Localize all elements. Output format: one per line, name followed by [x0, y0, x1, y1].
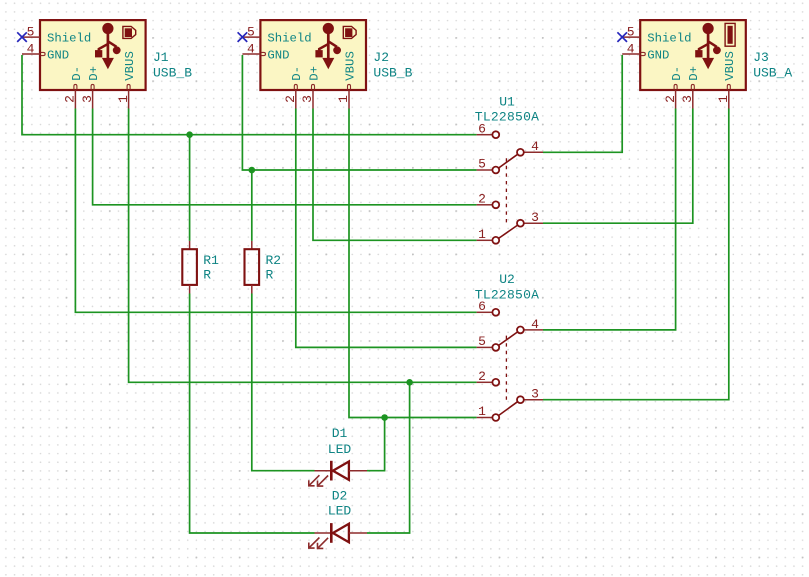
- U1 pin 1: [477, 239, 493, 241]
- R2 bottom pin: [251, 285, 253, 294]
- svg-text:3: 3: [531, 387, 539, 402]
- svg-text:3: 3: [300, 95, 315, 103]
- svg-text:4: 4: [627, 42, 635, 57]
- D1 anode triangle: [333, 462, 349, 480]
- J2 body box: [260, 20, 366, 90]
- wire R1 top tap: [189, 135, 191, 241]
- J2 pin 2 alternate-function hook: [294, 84, 297, 89]
- J1 pin 5 Shield: [22, 36, 40, 38]
- svg-text:D+: D+: [307, 66, 321, 81]
- wire D1 anode riser: [367, 418, 385, 471]
- D1 emission arrow 1: [309, 475, 320, 486]
- svg-text:1: 1: [336, 95, 351, 103]
- svg-text:VBUS: VBUS: [723, 51, 737, 81]
- LED D2: [309, 488, 367, 548]
- J3 pin 4 alternate-function hook: [641, 52, 645, 55]
- svg-text:J3: J3: [753, 50, 769, 65]
- svg-text:2: 2: [663, 95, 678, 103]
- svg-text:VBUS: VBUS: [343, 51, 357, 81]
- D2 emission arrow 2: [318, 538, 329, 549]
- J1 pin 2 alternate-function hook: [74, 84, 77, 89]
- J1 pin 2 (D-): [74, 90, 76, 108]
- U2 gang dashed link: [505, 336, 507, 404]
- svg-text:GND: GND: [47, 48, 69, 62]
- wire J3.D- to U2 pin4: [543, 109, 676, 330]
- J3 pin 5 Shield: [622, 36, 640, 38]
- D1 emission arrow 2: [318, 476, 329, 487]
- analog switch U2 TL22850A: [475, 272, 543, 421]
- J2 pin 1 (VBUS): [348, 90, 350, 108]
- J3 pin 2 (D-): [675, 90, 677, 108]
- svg-text:J2: J2: [373, 50, 389, 65]
- svg-text:Shield: Shield: [647, 32, 691, 46]
- junction R1 top / net GNDA: [186, 131, 193, 138]
- svg-text:3: 3: [80, 95, 95, 103]
- svg-text:USB_B: USB_B: [153, 65, 192, 80]
- D1 cathode bar: [330, 461, 333, 481]
- svg-text:J1: J1: [153, 50, 169, 65]
- wire J3.VBUS to U2 pin3: [543, 109, 729, 400]
- R1 bottom pin: [189, 285, 191, 294]
- svg-text:5: 5: [627, 25, 635, 40]
- svg-text:USB_A: USB_A: [753, 65, 792, 80]
- J1 pin 1 (VBUS): [128, 90, 130, 108]
- no-connect X J3 pin 5: [617, 32, 627, 42]
- U2 pin 5: [477, 346, 493, 348]
- J1 body box: [40, 20, 146, 90]
- J3 body box: [640, 20, 746, 90]
- svg-text:2: 2: [478, 369, 486, 384]
- svg-text:LED: LED: [328, 503, 352, 518]
- wire J2.D+ to U1 pin1: [313, 109, 477, 241]
- J3 pin 2 alternate-function hook: [674, 84, 677, 89]
- J1 pin 3 alternate-function hook: [91, 84, 94, 89]
- J3 pin 3 (D+): [692, 90, 694, 108]
- J2 pin 4 GND: [242, 53, 260, 55]
- wire J1.VBUS to U2 pin2: [129, 109, 477, 383]
- U2 switch lever A: [499, 332, 518, 346]
- J2 pin 2 (D-): [295, 90, 297, 108]
- wire J1.GND to U1 pin6 (net GNDA): [22, 55, 477, 135]
- analog switch U1 TL22850A: [475, 94, 543, 243]
- U2 switch lever B: [499, 402, 518, 416]
- J2 pin 5 Shield: [242, 36, 260, 38]
- svg-text:1: 1: [716, 95, 731, 103]
- U1 switch lever A: [499, 154, 518, 168]
- svg-text:R2: R2: [266, 253, 282, 268]
- D1 right pin: [349, 470, 367, 472]
- svg-text:1: 1: [116, 95, 131, 103]
- svg-text:5: 5: [478, 334, 486, 349]
- svg-text:GND: GND: [647, 48, 669, 62]
- U1 gang dashed link: [505, 158, 507, 226]
- no-connect X J1 pin 5: [17, 32, 27, 42]
- U1 pin 6: [477, 134, 493, 136]
- J3 pin 1 (VBUS): [728, 90, 730, 108]
- wire R1 bottom to D2 cathode: [190, 294, 315, 534]
- J1 pin 3 (D+): [92, 90, 94, 108]
- U2 pin 1: [477, 417, 493, 419]
- J3 USB-A receptacle icon: [725, 23, 735, 46]
- J1 pin 4 GND: [22, 53, 40, 55]
- svg-text:2: 2: [478, 192, 486, 207]
- J3 pin 4 GND: [622, 53, 640, 55]
- wire J2.VBUS to U2 pin1: [349, 109, 477, 418]
- svg-text:4: 4: [247, 42, 255, 57]
- D2 left pin: [315, 532, 332, 534]
- J2 pin 4 alternate-function hook: [261, 52, 265, 55]
- R2 body: [245, 249, 260, 285]
- svg-text:D+: D+: [687, 66, 701, 81]
- svg-text:4: 4: [27, 42, 35, 57]
- J2 pin 1 alternate-function hook: [348, 84, 351, 89]
- J3 USB trident icon: [695, 23, 721, 69]
- svg-text:2: 2: [283, 95, 298, 103]
- resistor R2: [245, 241, 282, 294]
- svg-text:USB_B: USB_B: [373, 65, 412, 80]
- U1 pin 4: [524, 151, 543, 153]
- connector J1 (USB_B): [22, 20, 192, 108]
- wire J2.D- to U2 pin5: [296, 109, 477, 348]
- svg-text:D-: D-: [290, 66, 304, 81]
- svg-text:4: 4: [531, 317, 539, 332]
- U2 pin 2: [477, 381, 493, 383]
- U2 pin 3: [524, 399, 543, 401]
- D2 right pin: [349, 532, 367, 534]
- U1 switch lever B: [499, 225, 518, 238]
- wire J1.D+ to U1 pin2: [93, 109, 477, 205]
- svg-text:D-: D-: [70, 66, 84, 81]
- U1 pin 3: [524, 222, 543, 224]
- junction R2 top / net GNDB: [249, 167, 256, 174]
- connector J3 (USB_A): [622, 20, 792, 108]
- svg-text:GND: GND: [267, 48, 289, 62]
- D2 emission arrow 1: [309, 538, 320, 549]
- R2 top pin: [251, 241, 253, 249]
- J3 pin 1 alternate-function hook: [727, 84, 730, 89]
- wire J2.GND to U1 pin5 (net GNDB): [242, 55, 476, 170]
- svg-text:VBUS: VBUS: [123, 51, 137, 81]
- connector J2 (USB_B): [242, 20, 412, 108]
- U2 pin 4: [524, 329, 543, 331]
- svg-text:D2: D2: [332, 488, 348, 503]
- J2 USB trident icon: [315, 23, 341, 69]
- wire R2 bottom to D1 cathode: [252, 294, 315, 471]
- J1 pin 1 alternate-function hook: [127, 84, 130, 89]
- J1 USB-B receptacle icon: [123, 26, 136, 38]
- svg-text:2: 2: [63, 95, 78, 103]
- U2 pin 6: [477, 311, 493, 313]
- U1 pin 2: [477, 204, 493, 206]
- svg-text:D+: D+: [87, 66, 101, 81]
- svg-text:R: R: [203, 267, 211, 282]
- svg-text:Shield: Shield: [267, 32, 311, 46]
- no-connect X J2 pin 5: [238, 32, 248, 42]
- wire D2 anode riser: [367, 382, 410, 533]
- J2 pin 3 alternate-function hook: [312, 84, 315, 89]
- junction D2 riser / J1.VBUS net: [406, 379, 413, 386]
- svg-text:R1: R1: [203, 253, 219, 268]
- svg-text:3: 3: [531, 210, 539, 225]
- svg-text:D-: D-: [670, 66, 684, 81]
- junction D1 riser / J2.VBUS net: [381, 414, 388, 421]
- svg-text:1: 1: [478, 404, 486, 419]
- wire J3.D+ to U1 pin3: [543, 109, 693, 224]
- svg-text:LED: LED: [328, 442, 352, 457]
- svg-text:U1: U1: [499, 94, 515, 109]
- LED D1: [309, 426, 367, 486]
- resistor R1: [182, 241, 219, 294]
- D2 cathode bar: [330, 523, 333, 543]
- wire J3.GND to U1 pin4: [543, 55, 622, 152]
- svg-text:6: 6: [478, 299, 486, 314]
- svg-text:U2: U2: [499, 272, 515, 287]
- D1 left pin: [315, 470, 332, 472]
- svg-text:R: R: [266, 267, 274, 282]
- J3 pin 3 alternate-function hook: [691, 84, 694, 89]
- wire J1.D- to U2 pin6: [75, 109, 476, 313]
- svg-text:5: 5: [478, 157, 486, 172]
- wire R2 top tap: [251, 170, 253, 241]
- J1 USB trident icon: [95, 23, 121, 69]
- svg-text:1: 1: [478, 227, 486, 242]
- D2 anode triangle: [333, 524, 349, 542]
- svg-text:5: 5: [247, 25, 255, 40]
- R1 top pin: [189, 241, 191, 249]
- R1 body: [182, 249, 197, 285]
- J2 pin 3 (D+): [312, 90, 314, 108]
- svg-text:4: 4: [531, 139, 539, 154]
- svg-text:6: 6: [478, 121, 486, 136]
- J1 pin 4 alternate-function hook: [41, 52, 45, 55]
- svg-text:5: 5: [27, 25, 35, 40]
- U1 pin 5: [477, 169, 493, 171]
- J2 USB-B receptacle icon: [343, 26, 356, 38]
- svg-text:Shield: Shield: [47, 32, 91, 46]
- svg-text:D1: D1: [332, 426, 348, 441]
- svg-text:3: 3: [680, 95, 695, 103]
